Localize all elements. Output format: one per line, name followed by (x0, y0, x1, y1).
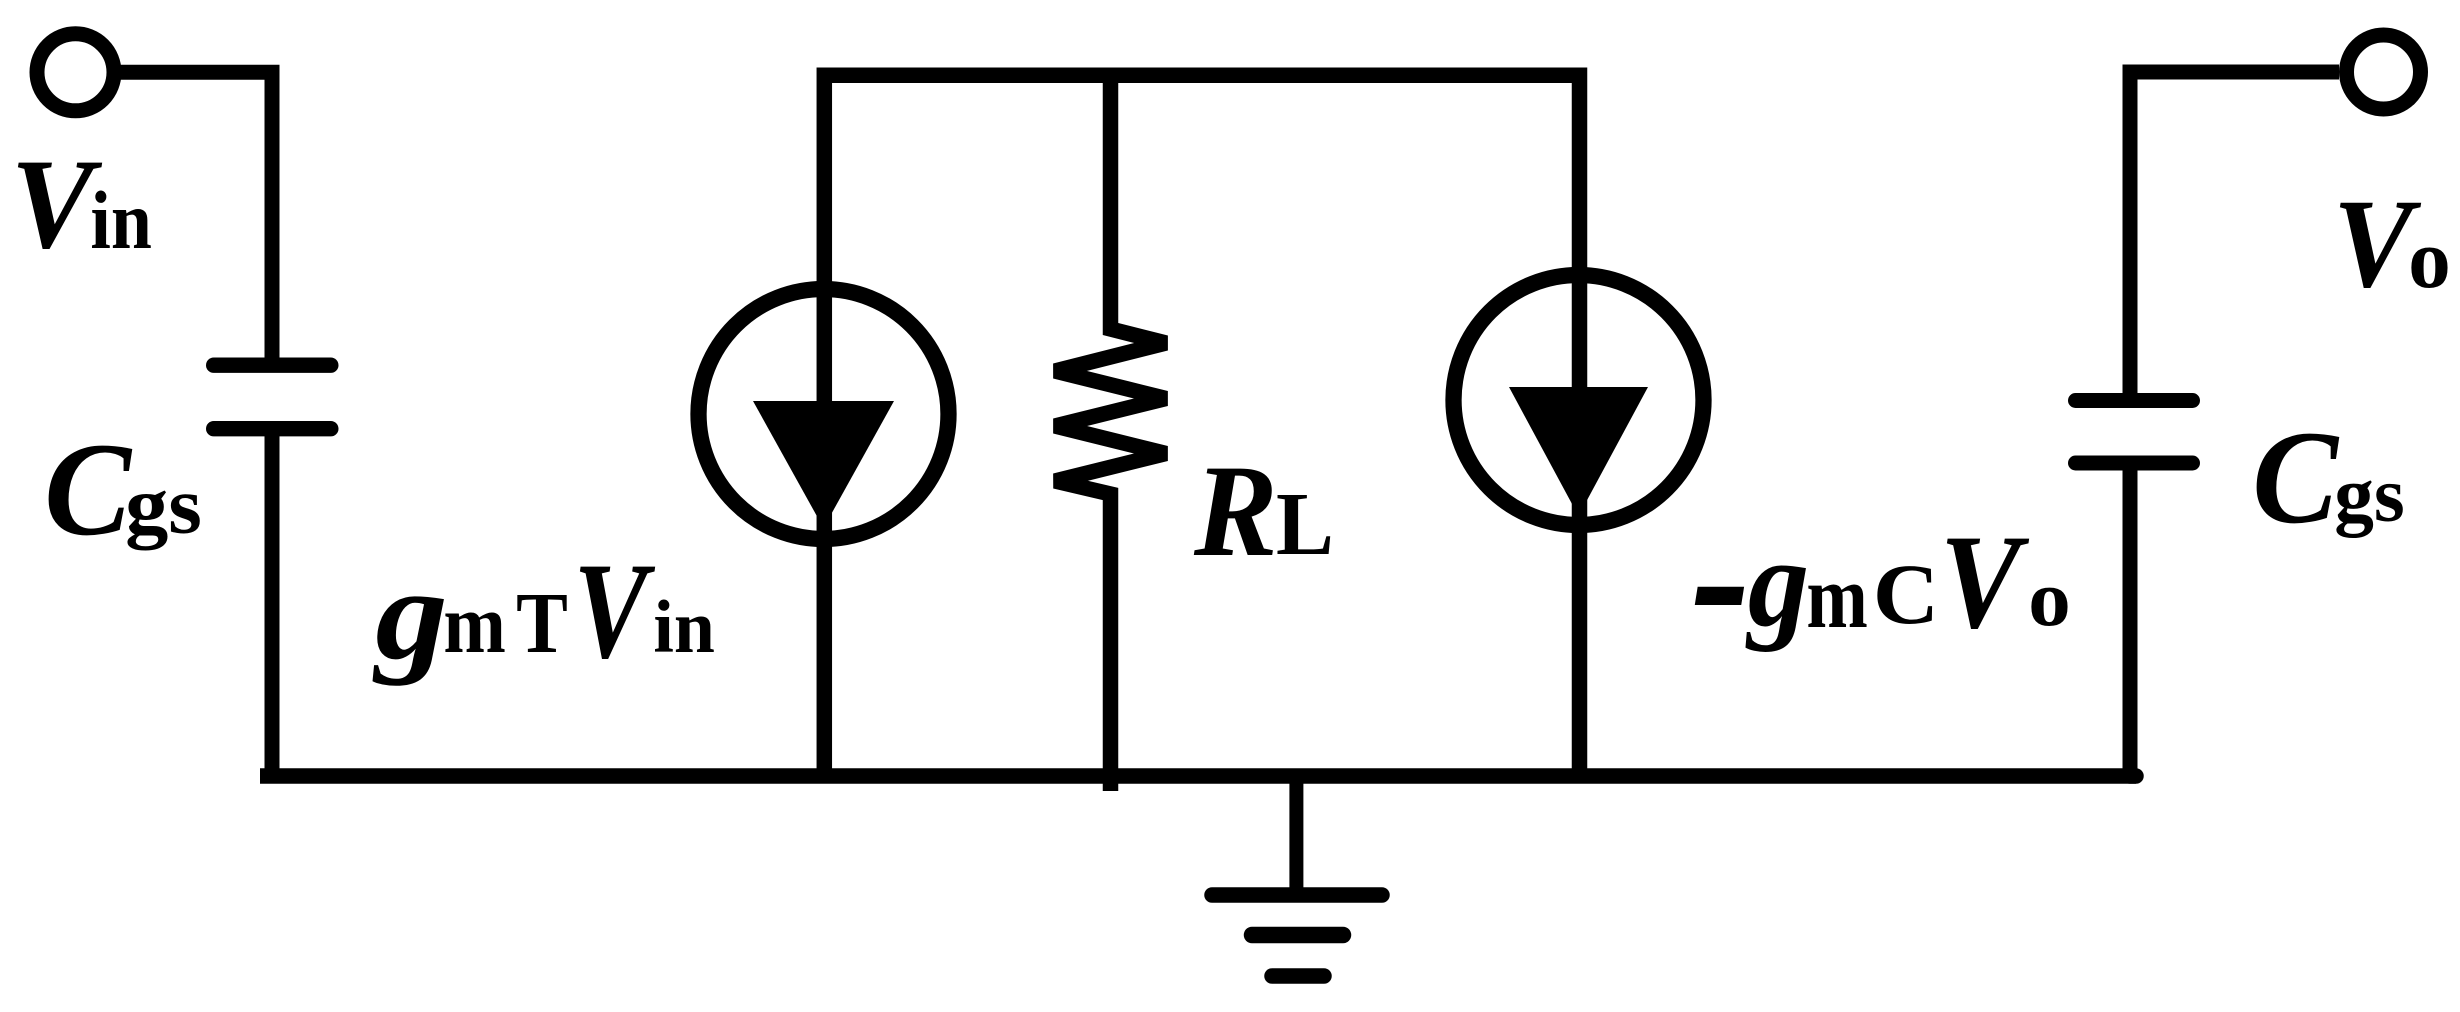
svg-text:m: m (1806, 547, 1867, 647)
capacitor Cgs (left) bottom plate (206, 421, 339, 436)
label Vo (2333, 173, 2451, 314)
svg-text:-: - (1691, 455, 1751, 693)
svg-text:o: o (2408, 214, 2451, 306)
svg-text:in: in (653, 585, 715, 669)
wire input top (113, 72, 272, 362)
svg-text:g: g (372, 542, 448, 687)
terminal Vo (2347, 35, 2421, 109)
svg-text:C: C (1873, 548, 1939, 643)
terminal Vin (37, 34, 114, 111)
label Cgs left (44, 415, 202, 564)
svg-text:in: in (90, 174, 152, 266)
top bus wire with CS branch wires (824, 75, 1579, 776)
svg-text:C: C (44, 415, 133, 564)
label RL (1193, 437, 1334, 584)
svg-text:R: R (1193, 437, 1278, 584)
svg-text:V: V (11, 133, 103, 275)
label Cgs right (2252, 404, 2405, 552)
ground bus wire (260, 768, 2136, 784)
wire right cap to ground bus (2123, 465, 2138, 776)
svg-text:V: V (573, 535, 656, 688)
capacitor Cgs (right) top plate (2068, 393, 2200, 408)
svg-text:V: V (1940, 507, 2030, 656)
label Vin (11, 133, 152, 275)
label -gmC Vo (1691, 455, 2071, 693)
svg-text:m: m (443, 578, 505, 671)
capacitor Cgs (left) top plate (206, 358, 339, 373)
ground (1212, 776, 1382, 976)
resistor RL (1055, 75, 1166, 791)
current source U1 arrow (753, 401, 894, 528)
wire output top (2130, 72, 2339, 397)
wire left cap to ground bus (265, 430, 280, 776)
svg-text:g: g (1745, 512, 1809, 652)
capacitor Cgs (right) bottom plate (2068, 456, 2200, 471)
current source U1 circle (699, 289, 949, 539)
svg-text:o: o (2028, 554, 2071, 643)
svg-text:C: C (2252, 404, 2339, 552)
current source U2 circle (1454, 275, 1704, 525)
current source U2 arrow (1509, 387, 1648, 516)
svg-text:gs: gs (125, 461, 202, 551)
label gmT Vin (372, 535, 715, 688)
svg-text:gs: gs (2334, 452, 2405, 538)
svg-text:T: T (516, 575, 568, 671)
svg-text:L: L (1276, 475, 1334, 575)
